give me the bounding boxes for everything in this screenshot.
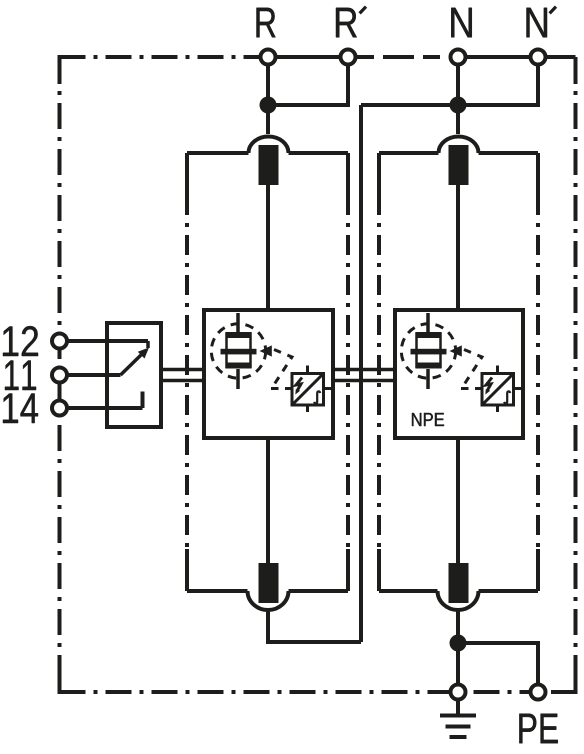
thermal disconnect F1 top wire	[266, 105, 270, 134]
spark gap 1 bottom lead	[236, 369, 240, 389]
spark gap 1 middle bar	[221, 349, 257, 355]
spark gap box 2 outline	[395, 310, 523, 438]
junction A (R/R')	[260, 97, 277, 114]
varistor box 1	[292, 374, 324, 406]
wire terminal 14 to contact	[60, 406, 143, 410]
spark gap symbol inside box 1	[211, 313, 331, 412]
terminal 12	[52, 334, 67, 349]
terminal 14	[52, 401, 67, 416]
module 1 left edge (dash-dot)	[185, 153, 189, 195]
terminal N	[451, 50, 466, 65]
ground bar 2	[446, 725, 471, 729]
module 1 right edge (dash-dot)	[346, 153, 350, 195]
module 2 left edge (dash-dot)	[377, 153, 381, 195]
spark gap 1 top lead	[236, 313, 240, 332]
enclosure border left (dash-dot)	[58, 57, 62, 692]
wire terminal 12 to contact	[60, 339, 149, 343]
label PE	[519, 714, 557, 744]
varistor box 2 integral sign	[504, 391, 510, 403]
varistor box 2 surge bolt	[486, 378, 492, 392]
label 14	[3, 394, 38, 424]
contact 14 hook	[141, 392, 145, 409]
varistor box 2 bolt arrowhead	[485, 389, 490, 394]
enclosure corner top-right	[574, 57, 578, 84]
terminal PE	[531, 685, 546, 700]
enclosure border bottom (dash-dot)	[60, 690, 576, 694]
thermal disconnect F1 fuse body	[259, 145, 279, 185]
wire terminal 11 to pivot	[60, 373, 121, 377]
enclosure border top segment N to corner (solid)	[458, 55, 576, 59]
label N	[451, 8, 472, 38]
trigger dashed zigzag 2	[461, 350, 482, 389]
spark gap 2 bottom electrode	[416, 363, 442, 369]
label 12	[3, 326, 38, 356]
junction PE node	[450, 635, 467, 652]
label NPE	[412, 413, 444, 426]
changeover lever	[121, 354, 143, 375]
module 1 bottom edge with disconnect arc	[187, 589, 348, 593]
spark gap 2 top lead	[426, 313, 430, 332]
mechanical linkage (double line) box 1 to box 2	[333, 368, 395, 372]
varistor box 1 integral sign	[314, 391, 320, 403]
thermal disconnect F3 fuse body	[259, 563, 279, 603]
terminal R	[261, 50, 276, 65]
dashed trigger circle 2	[401, 324, 455, 378]
enclosure border top (dash-dot)	[60, 55, 261, 59]
spark gap 2 top electrode	[416, 332, 442, 338]
trigger arrow 1	[260, 345, 272, 356]
label R	[257, 8, 276, 38]
enclosure border right (dash-dot)	[574, 57, 578, 692]
wire R terminal to junction	[266, 57, 270, 105]
dashed trigger circle 1	[211, 324, 265, 378]
varistor box 2 diagonal	[482, 374, 514, 406]
thermal disconnect F2 fuse body	[449, 145, 469, 185]
enclosure corner top-left	[60, 57, 83, 84]
label 11	[5, 361, 36, 391]
ground bar 3	[450, 735, 467, 739]
thermal disconnect F4 fuse body	[449, 563, 469, 603]
spark gap 1 bottom electrode	[226, 363, 252, 369]
trigger dashed zigzag 1	[271, 350, 292, 389]
varistor box 1 stubs	[285, 366, 332, 413]
varistor box 1 bolt arrowhead	[295, 389, 300, 394]
wire bottom of left arrester to node C	[268, 610, 361, 642]
label N'	[527, 8, 548, 38]
wire F2 to spark gap box 2	[456, 185, 460, 310]
lever arrowhead	[138, 348, 149, 359]
spark gap symbol inside box 2	[401, 313, 521, 426]
module 1 disconnect arc top	[249, 137, 289, 153]
ground stem below terminal	[456, 700, 460, 714]
varistor box 1 diagonal	[292, 374, 324, 406]
wire F1 to spark gap box 1	[266, 185, 270, 310]
contact 12 end tick	[146, 341, 150, 348]
enclosure corner bottom-right	[551, 667, 576, 692]
module 2 right edge (dash-dot)	[536, 153, 540, 195]
varistor box 2	[482, 374, 514, 406]
wire spark gap box 1 to bottom disconnect F3	[266, 438, 270, 563]
module 1 (left) top edge with thermal disconnect arc	[187, 151, 348, 155]
spark gap 2 electrode housing	[417, 334, 441, 368]
prime tick of N'	[550, 7, 556, 14]
wire jumper R' down and left to junction A	[268, 57, 348, 105]
trigger arrow 2	[450, 345, 462, 356]
spark gap 2 middle bar	[411, 349, 447, 355]
spark gap box 1 outline	[204, 310, 333, 438]
prime tick of R'	[360, 7, 366, 14]
spark gap 1 top electrode	[226, 332, 252, 338]
ground bar 1	[440, 714, 476, 718]
module 2 disconnect arc top	[439, 137, 479, 153]
module 2 (right, NPE) top edge with disconnect arc	[379, 151, 538, 155]
varistor box 2 stubs	[475, 366, 522, 413]
terminal ground	[451, 685, 466, 700]
wire N terminal to junction	[456, 57, 460, 105]
terminal 11	[52, 368, 67, 383]
enclosure corner bottom-left	[60, 667, 86, 692]
wire junction B left to node C	[361, 103, 458, 107]
wire PE junction right and down to PE terminal	[458, 643, 538, 692]
label R'	[336, 8, 357, 38]
module 2 disconnect arc bottom	[438, 591, 479, 610]
terminal R'	[341, 50, 356, 65]
thermal disconnect F2 top wire	[456, 105, 460, 134]
wire jumper N' down and left to junction B	[458, 57, 538, 105]
enclosure border top segment R' to N (dash-dot)	[357, 55, 449, 59]
wire spark gap box 2 to bottom disconnect F4	[456, 438, 460, 563]
module 1 disconnect arc bottom	[248, 591, 289, 610]
junction B (N/N')	[450, 97, 467, 114]
module 2 bottom edge with disconnect arc	[379, 589, 538, 593]
wire node C down (long vertical between modules)	[359, 105, 363, 642]
varistor box 1 surge bolt	[296, 378, 302, 392]
wire F4 down to PE junction	[456, 610, 460, 692]
terminal N'	[531, 50, 546, 65]
enclosure border top segment R to R' (solid)	[268, 55, 348, 59]
remote contact box K1	[107, 323, 161, 427]
spark gap 1 electrode housing	[227, 334, 251, 368]
mechanical linkage (double line) switch to box 1	[161, 370, 395, 381]
spark gap 2 bottom lead	[426, 369, 430, 389]
